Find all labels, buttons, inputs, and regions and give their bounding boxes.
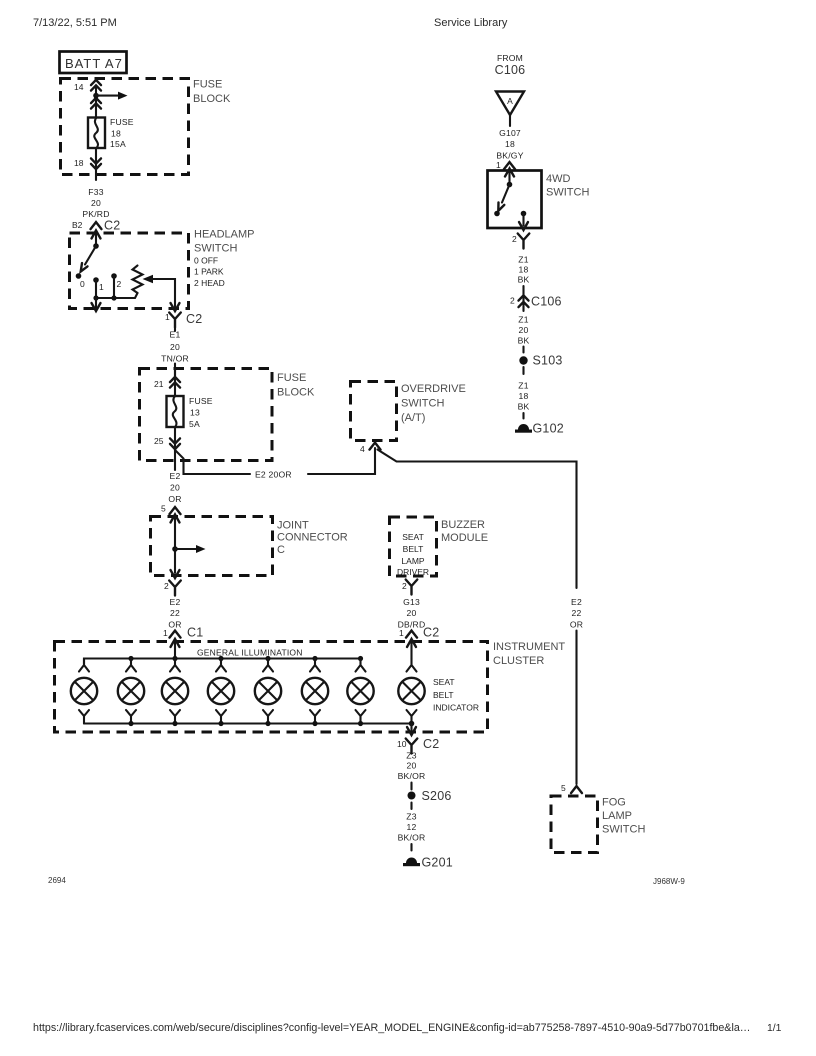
svg-text:2: 2 — [510, 296, 515, 306]
svg-text:OR: OR — [570, 620, 583, 630]
svg-text:BUZZER: BUZZER — [441, 519, 485, 531]
svg-text:E2 20OR: E2 20OR — [255, 470, 292, 480]
svg-text:G201: G201 — [422, 856, 453, 870]
splice S103 — [519, 356, 527, 364]
svg-text:C2: C2 — [186, 312, 202, 326]
wire label E1 20 TN/OR — [174, 328, 176, 332]
svg-text:2694: 2694 — [48, 876, 66, 885]
wire segment — [522, 367, 524, 374]
svg-text:Z3: Z3 — [406, 812, 416, 822]
wire fuse to block exit — [95, 148, 97, 180]
svg-text:Z1: Z1 — [518, 255, 528, 265]
cluster entry arrow from C1 — [171, 639, 180, 647]
wire branch to E2 20OR horizontal run — [175, 450, 250, 474]
svg-text:18: 18 — [505, 139, 515, 149]
svg-text:SWITCH: SWITCH — [401, 398, 444, 410]
svg-text:Service Library: Service Library — [434, 17, 508, 29]
svg-text:12: 12 — [407, 822, 417, 832]
4wd switch solid box — [488, 171, 542, 229]
svg-text:5: 5 — [561, 783, 566, 793]
fuse block 1 dashed box — [61, 79, 189, 175]
svg-text:OR: OR — [168, 620, 181, 630]
svg-text:BK/OR: BK/OR — [398, 771, 426, 781]
4wd switch contacts — [507, 182, 513, 188]
svg-text:20: 20 — [519, 325, 529, 335]
svg-text:0: 0 — [80, 279, 85, 289]
switch pivot and blade — [93, 243, 99, 249]
svg-text:(A/T): (A/T) — [401, 412, 425, 424]
svg-text:B2: B2 — [72, 220, 83, 230]
source triangle A — [496, 92, 524, 116]
battery feed box BATT A7 — [60, 52, 127, 74]
joint connector entry arrow and internal branch — [171, 515, 180, 523]
svg-text:BK/GY: BK/GY — [496, 151, 523, 161]
switch position 0 — [76, 273, 82, 279]
seat belt indicator lamp — [398, 639, 424, 724]
buzzer module dashed box — [390, 517, 437, 576]
svg-text:GENERAL ILLUMINATION: GENERAL ILLUMINATION — [197, 648, 303, 658]
park output arrow — [95, 298, 97, 308]
svg-text:BK: BK — [518, 275, 530, 285]
svg-text:18: 18 — [519, 391, 529, 401]
svg-text:A: A — [507, 96, 513, 106]
ground G102 — [515, 424, 532, 433]
bus junction dots — [128, 656, 133, 661]
svg-text:1: 1 — [99, 282, 104, 292]
wire segment — [410, 803, 412, 810]
svg-text:7/13/22, 5:51 PM: 7/13/22, 5:51 PM — [33, 17, 117, 29]
svg-text:CONNECTOR: CONNECTOR — [277, 532, 348, 544]
svg-text:22: 22 — [572, 608, 582, 618]
svg-text:SEAT: SEAT — [433, 677, 455, 687]
svg-text:G107: G107 — [499, 128, 521, 138]
svg-text:PK/RD: PK/RD — [82, 209, 109, 219]
svg-text:C106: C106 — [495, 63, 526, 77]
svg-text:Z3: Z3 — [406, 751, 416, 761]
svg-text:Z1: Z1 — [518, 315, 528, 325]
svg-text:FUSE: FUSE — [189, 396, 213, 406]
joint connector C dashed box — [151, 517, 273, 576]
4wd switch exit pin 2 — [522, 214, 524, 226]
svg-text:2: 2 — [117, 279, 122, 289]
svg-text:J968W-9: J968W-9 — [653, 877, 685, 886]
svg-text:FROM: FROM — [497, 53, 523, 63]
svg-text:E2: E2 — [571, 597, 582, 607]
svg-text:5: 5 — [161, 504, 166, 514]
svg-text:FUSE: FUSE — [277, 372, 306, 384]
svg-text:C2: C2 — [423, 737, 439, 751]
svg-text:BELT: BELT — [403, 544, 424, 554]
svg-text:20: 20 — [407, 608, 417, 618]
splice S206 — [408, 792, 416, 800]
svg-text:DRIVER: DRIVER — [397, 567, 429, 577]
svg-text:2: 2 — [164, 581, 169, 591]
svg-text:C106: C106 — [531, 295, 562, 309]
svg-text:25: 25 — [154, 436, 164, 446]
wire batt to fuse with connector chevrons — [95, 87, 97, 118]
svg-text:BK: BK — [518, 402, 530, 412]
svg-text:14: 14 — [74, 82, 84, 92]
svg-text:21: 21 — [154, 379, 164, 389]
svg-text:1: 1 — [163, 628, 168, 638]
svg-text:4: 4 — [360, 444, 365, 454]
wire segment — [522, 347, 524, 353]
svg-text:OR: OR — [168, 494, 181, 504]
svg-text:MODULE: MODULE — [441, 532, 488, 544]
svg-text:4WD: 4WD — [546, 173, 571, 185]
svg-text:F33: F33 — [88, 187, 103, 197]
svg-text:Z1: Z1 — [518, 381, 528, 391]
svg-text:C: C — [277, 544, 285, 556]
svg-text:1/1: 1/1 — [767, 1023, 782, 1034]
illumination lamp 2 — [118, 659, 144, 724]
svg-text:1 PARK: 1 PARK — [194, 267, 224, 277]
illumination lamp 4 — [208, 659, 234, 724]
overdrive switch dashed box — [351, 382, 397, 441]
svg-text:INDICATOR: INDICATOR — [433, 703, 479, 713]
svg-text:G102: G102 — [533, 422, 564, 436]
switch output bus — [96, 293, 138, 298]
wire to fog lamp switch — [575, 631, 577, 785]
svg-text:LAMP: LAMP — [401, 556, 424, 566]
svg-text:S206: S206 — [422, 789, 452, 803]
illumination lamp 1 — [71, 659, 97, 724]
svg-text:22: 22 — [170, 608, 180, 618]
svg-text:20: 20 — [91, 198, 101, 208]
svg-text:BK: BK — [518, 336, 530, 346]
svg-text:FOG: FOG — [602, 797, 626, 809]
svg-text:C2: C2 — [104, 219, 120, 233]
illumination lamp 5 — [255, 659, 281, 724]
svg-text:15A: 15A — [110, 139, 126, 149]
4wd switch entry arrow — [505, 169, 514, 177]
fuse F1 symbol (FUSE 18 15A) — [88, 118, 105, 149]
svg-text:20: 20 — [170, 342, 180, 352]
fog lamp switch dashed box — [551, 796, 598, 853]
svg-text:JOINT: JOINT — [277, 520, 309, 532]
wire segment — [410, 844, 412, 851]
svg-text:C2: C2 — [423, 626, 439, 640]
svg-text:FUSE: FUSE — [193, 79, 222, 91]
rheostat resistor — [133, 266, 143, 294]
svg-text:SWITCH: SWITCH — [546, 187, 589, 199]
svg-text:E1: E1 — [170, 330, 181, 340]
svg-text:LAMP: LAMP — [602, 810, 632, 822]
connector C106 pin 2 — [522, 286, 524, 311]
fuse block 2 dashed box — [140, 369, 273, 461]
wire E2 20OR to overdrive switch — [308, 448, 375, 474]
svg-text:13: 13 — [190, 408, 200, 418]
wire segment — [522, 413, 524, 419]
svg-text:TN/OR: TN/OR — [161, 354, 189, 364]
svg-text:G13: G13 — [403, 597, 420, 607]
svg-text:SWITCH: SWITCH — [194, 243, 237, 255]
illumination lamp 6 — [302, 659, 328, 724]
svg-text:INSTRUMENT: INSTRUMENT — [493, 641, 565, 653]
svg-text:S103: S103 — [533, 354, 563, 368]
illumination lamp 3 — [162, 659, 188, 724]
svg-text:18: 18 — [74, 158, 84, 168]
svg-text:18: 18 — [111, 129, 121, 139]
svg-text:HEADLAMP: HEADLAMP — [194, 229, 255, 241]
wire segment — [410, 783, 412, 790]
svg-text:BLOCK: BLOCK — [277, 387, 315, 399]
svg-text:SWITCH: SWITCH — [602, 824, 645, 836]
ground G201 — [403, 858, 420, 867]
headlamp switch dashed box — [70, 233, 189, 309]
svg-text:5A: 5A — [189, 419, 200, 429]
svg-text:SEAT: SEAT — [402, 532, 424, 542]
rheostat wiper arrow — [143, 275, 154, 283]
svg-text:1: 1 — [399, 628, 404, 638]
svg-text:OVERDRIVE: OVERDRIVE — [401, 383, 466, 395]
instrument cluster dashed box — [55, 642, 488, 733]
svg-text:BATT A7: BATT A7 — [65, 56, 123, 71]
svg-text:BELT: BELT — [433, 690, 454, 700]
headlamp switch entry arrow — [92, 231, 101, 239]
svg-text:18: 18 — [519, 265, 529, 275]
svg-text:https://library.fcaservices.co: https://library.fcaservices.com/web/secu… — [33, 1022, 750, 1034]
illumination lamp 7 — [347, 659, 373, 724]
general illumination bus — [84, 659, 361, 665]
cluster exit arrow pin 10 — [410, 724, 412, 732]
lamp return bus — [84, 722, 412, 724]
svg-text:E2: E2 — [170, 471, 181, 481]
wire overdrive to fog lamp run — [378, 450, 577, 589]
svg-text:2: 2 — [512, 234, 517, 244]
svg-text:E2: E2 — [170, 597, 181, 607]
svg-text:BLOCK: BLOCK — [193, 93, 231, 105]
joint connector exit arrow pin 2 — [171, 570, 180, 578]
svg-text:20: 20 — [170, 483, 180, 493]
svg-text:10: 10 — [397, 739, 407, 749]
svg-text:0 OFF: 0 OFF — [194, 256, 218, 266]
switch position 1 — [93, 277, 99, 283]
svg-text:BK/OR: BK/OR — [398, 833, 426, 843]
fuse F13 symbol (FUSE 13 5A) — [167, 396, 184, 427]
svg-text:CLUSTER: CLUSTER — [493, 655, 544, 667]
switch position 2 — [111, 273, 117, 279]
svg-text:1: 1 — [496, 160, 501, 170]
splice dot with branch arrow — [93, 93, 99, 99]
svg-text:2 HEAD: 2 HEAD — [194, 278, 225, 288]
svg-text:2: 2 — [402, 581, 407, 591]
svg-text:C1: C1 — [187, 626, 203, 640]
svg-text:20: 20 — [407, 761, 417, 771]
svg-text:FUSE: FUSE — [110, 117, 134, 127]
